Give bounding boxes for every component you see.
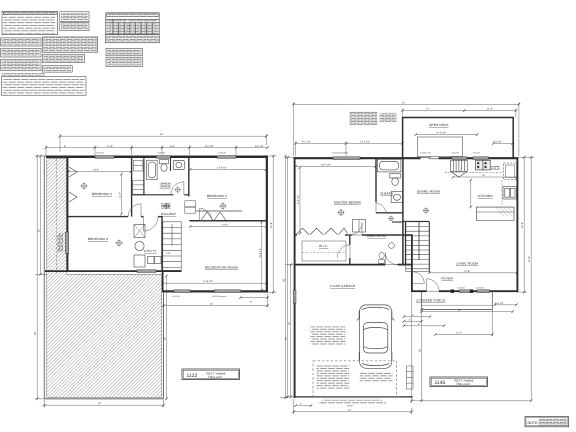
- dim 14ft-2 below bedroom2: [189, 225, 268, 228]
- svg-text:24': 24': [38, 228, 41, 232]
- mudroom light: [388, 216, 394, 222]
- ceiling light bedroom4: [116, 240, 123, 247]
- svg-text:17'-3": 17'-3": [107, 145, 113, 148]
- m.bath bottom wall: [376, 212, 403, 214]
- svg-text:6'x3'6 SH egress: 6'x3'6 SH egress: [212, 295, 226, 298]
- dim 17ft-6 living: [428, 272, 518, 275]
- note block C: headers note: [60, 23, 89, 31]
- mud room lockers: [353, 220, 366, 233]
- dim right 27ft-6 left plan: [268, 155, 276, 294]
- right plan left exterior wall: [294, 157, 296, 398]
- dim hatch height vertical: [165, 275, 168, 401]
- m.bath left wall: [375, 157, 377, 202]
- stairs main level: [406, 222, 430, 272]
- utility furnace: [134, 225, 145, 238]
- note block K2: lighting note: [106, 57, 142, 66]
- window W1 bedroom3 top: [95, 156, 114, 159]
- dim 13ft-2 bedroom3: [67, 170, 132, 173]
- window W7 bedroom4 bottom: [137, 270, 156, 273]
- window W5 rec room: [214, 290, 240, 293]
- garage entry door arc: [385, 252, 397, 264]
- dim 41ft top right plan: [292, 102, 520, 156]
- svg-text:11'-5": 11'-5": [456, 332, 462, 335]
- utility room right wall: [161, 217, 163, 272]
- front wall foyer/living: [412, 290, 519, 292]
- dining/master wall: [402, 157, 404, 264]
- bath fan symbol: [175, 187, 181, 193]
- svg-text:MUD ROOM: MUD ROOM: [367, 234, 386, 238]
- bath toilet lower level: [160, 159, 169, 171]
- window W11 garage left wall: [293, 290, 296, 303]
- svg-text:16'-0": 16'-0": [347, 405, 353, 408]
- stairwell top wall: [403, 220, 429, 222]
- svg-text:50': 50': [283, 278, 286, 282]
- left plan hatched unexcavated area: [47, 158, 162, 397]
- kitchen dim 13ft: [452, 176, 518, 179]
- garage door line: [312, 396, 400, 398]
- svg-text:4'x3'6 SH: 4'x3'6 SH: [96, 152, 105, 155]
- porch post 2: [470, 290, 473, 293]
- svg-text:22': 22': [458, 309, 462, 312]
- svg-text:17': 17': [426, 108, 430, 111]
- window W8 master top: [333, 157, 360, 160]
- svg-text:3'x3' SH: 3'x3' SH: [473, 152, 481, 155]
- hall closet tiny notes: [161, 203, 171, 209]
- right plan right exterior wall: [516, 157, 518, 292]
- window W2 bath top: [156, 156, 170, 159]
- dim bottom right plan porch side: [410, 293, 531, 403]
- notes above right plan: [349, 112, 377, 126]
- svg-text:16'-4 1/2": 16'-4 1/2": [321, 164, 331, 167]
- foyer closet door arc: [413, 272, 425, 284]
- dim 16ft-4 master: [294, 165, 377, 168]
- dim bottom 22ft rec room: [162, 294, 269, 308]
- dim left 44ft right plan: [285, 156, 294, 398]
- note block B: small note: [60, 12, 89, 22]
- deck inner rect: [418, 137, 463, 157]
- dim 12ft-4 deck: [415, 133, 479, 136]
- svg-text:4'x3'6 SH: 4'x3'6 SH: [476, 287, 485, 290]
- bath left wall: [143, 157, 145, 195]
- svg-text:BEDROOM 4: BEDROOM 4: [88, 237, 108, 241]
- note block G: dense specification paragraph: [42, 37, 97, 52]
- ceiling light bedroom2: [220, 203, 227, 210]
- sqft box 1145: [430, 377, 488, 387]
- window W10 kitchen top: [473, 157, 489, 160]
- kitchen range: [476, 160, 491, 170]
- interior wall bedrooms / hall: [68, 216, 163, 218]
- garage slab note: [317, 364, 350, 389]
- svg-text:8'-1 1/2": 8'-1 1/2": [302, 140, 311, 143]
- bath bottom wall: [132, 194, 188, 196]
- note block E: inspection required note: [1, 48, 41, 57]
- stairs arrow lower: [171, 224, 173, 246]
- stairwell left wall: [405, 222, 407, 265]
- rec room left wall lower: [162, 272, 164, 293]
- svg-text:1122: 1122: [187, 373, 198, 379]
- window W13 living front: [477, 290, 490, 293]
- svg-text:17'-6": 17'-6": [464, 270, 470, 273]
- dim right 50ft left plan: [280, 155, 288, 399]
- full size sedan note: [360, 373, 393, 383]
- svg-text:KITCHEN: KITCHEN: [478, 194, 493, 198]
- note block A: code information list: [2, 11, 58, 34]
- svg-text:BEDROOM 3: BEDROOM 3: [92, 192, 112, 196]
- kitchen upper cabinets dashed: [445, 171, 502, 173]
- window W9 dining top: [452, 157, 467, 160]
- linen closet lower: [133, 180, 144, 194]
- porch outline: [422, 292, 493, 309]
- dim line 42ft top of left plan: [59, 134, 268, 152]
- note block F: gutter note: [1, 59, 41, 70]
- garage dashed slab rect: [313, 361, 397, 397]
- window W6 bedroom4 left wall: [65, 232, 68, 254]
- note table: joist schedule: [106, 13, 159, 34]
- note block H: laminate note: [42, 66, 72, 73]
- dim right 52ft overall: [519, 156, 534, 402]
- bath door arc lower: [171, 182, 184, 195]
- wall bedroom2 bottom: [189, 220, 266, 222]
- mudroom closet wall: [392, 221, 403, 223]
- dim 9ft-6 master vertical: [299, 166, 302, 235]
- right plan top exterior wall: [294, 157, 519, 159]
- bedroom3 door arc: [128, 204, 141, 217]
- svg-text:UTILITY: UTILITY: [144, 249, 157, 253]
- dim 6ft porch: [403, 325, 446, 328]
- bedroom2 door arc: [200, 208, 212, 220]
- powder toilet: [379, 252, 385, 263]
- svg-text:This Level: This Level: [456, 382, 470, 386]
- bedroom4 door arc: [144, 217, 159, 232]
- wall toilet nook: [170, 157, 172, 172]
- ceiling light hallway: [163, 203, 169, 209]
- note block G2: subject to field note: [42, 54, 84, 62]
- svg-text:25': 25': [419, 348, 422, 352]
- dim 16ft-6 rec vertical: [261, 221, 264, 292]
- dim 4ft porch: [403, 320, 423, 323]
- svg-text:16'-6 1/2": 16'-6 1/2": [259, 248, 262, 258]
- garage car body: [357, 305, 395, 368]
- m.bath vanity: [391, 192, 402, 203]
- svg-text:OPEN DECK: OPEN DECK: [429, 123, 449, 127]
- garage bottom wall: [294, 396, 413, 398]
- bedroom4 bottom wall: [45, 270, 182, 272]
- svg-text:RECREATION ROOM: RECREATION ROOM: [205, 266, 238, 270]
- m.bath tub: [377, 159, 401, 172]
- dim 22ft porch: [420, 310, 514, 313]
- svg-text:1145: 1145: [435, 380, 446, 386]
- dim left outer 50ft: [35, 155, 46, 401]
- svg-text:17'-4 1/2": 17'-4 1/2": [360, 140, 370, 143]
- dim 11ft-5 porch: [434, 293, 493, 337]
- svg-text:4'x3'6 SH: 4'x3'6 SH: [157, 152, 166, 155]
- svg-text:24'-6": 24'-6": [521, 222, 524, 228]
- svg-text:4'x3'6 SH: 4'x3'6 SH: [172, 295, 181, 298]
- kitchen fridge: [504, 163, 517, 180]
- utility shelf: [134, 255, 145, 267]
- bedroom2 closet bifold doors: [201, 212, 226, 221]
- svg-text:5'-4 1/2": 5'-4 1/2": [495, 302, 504, 305]
- svg-text:MASTER BEDRM: MASTER BEDRM: [334, 201, 361, 205]
- svg-text:44'-6": 44'-6": [528, 256, 531, 262]
- svg-text:50': 50': [34, 331, 37, 335]
- svg-text:This Level: This Level: [208, 375, 222, 379]
- svg-text:22': 22': [210, 303, 214, 306]
- m.bath door arc: [376, 203, 386, 213]
- svg-text:42': 42': [160, 133, 164, 136]
- svg-text:44': 44': [285, 336, 288, 340]
- bedroom2 closet wall: [196, 210, 242, 212]
- wall bedroom3 right: [131, 157, 133, 217]
- stairwell right rail: [428, 222, 430, 272]
- wic bifold doors: [296, 228, 348, 234]
- garage side steps: [407, 366, 414, 389]
- svg-text:COVERED PORCH: COVERED PORCH: [416, 299, 445, 303]
- powder sink: [389, 243, 395, 249]
- dim 25ft porch vertical: [420, 308, 423, 402]
- svg-text:5'-8 1/2": 5'-8 1/2": [493, 141, 502, 144]
- bath tub lower level: [147, 160, 158, 179]
- hall shelf boxes: [185, 201, 196, 213]
- wall bath right / bedroom2 left: [188, 157, 190, 197]
- svg-text:HALLWAY: HALLWAY: [161, 212, 176, 216]
- dim 4ft garage left: [294, 404, 312, 407]
- kitchen pantry: [451, 161, 468, 178]
- svg-text:17'-0 1/2": 17'-0 1/2": [217, 167, 227, 170]
- svg-text:4'x3'6 SH: 4'x3'6 SH: [218, 152, 227, 155]
- dim bottom 24ft hatched area: [43, 400, 165, 408]
- dim left 24ft garage: [285, 263, 295, 398]
- left plan outer boundary: [44, 156, 267, 399]
- note block J: bottom paragraph with heading: [2, 73, 86, 95]
- dim row 2 left plan: [45, 145, 269, 155]
- svg-text:14'-2": 14'-2": [222, 224, 228, 227]
- left plan interior left wall: [67, 156, 69, 272]
- wic door arc: [337, 245, 350, 258]
- note table footer rows: [105, 35, 159, 43]
- recreation room bottom exterior wall: [163, 290, 267, 292]
- range note: [491, 166, 500, 170]
- svg-text:2-CAR GARAGE: 2-CAR GARAGE: [330, 284, 355, 288]
- svg-text:BEDROOM 2: BEDROOM 2: [207, 194, 227, 198]
- svg-text:13'-2": 13'-2": [93, 169, 99, 172]
- kitchen double sink: [503, 187, 517, 200]
- window W4 rec room: [174, 290, 190, 293]
- svg-text:24': 24': [98, 402, 102, 405]
- ceiling light master: [338, 209, 345, 216]
- dim 6ft rec window: [239, 296, 269, 299]
- svg-text:21': 21': [348, 409, 352, 412]
- porch steps line: [422, 304, 493, 306]
- svg-text:24': 24': [163, 336, 166, 340]
- footing dashed line in left strip: [56, 159, 58, 274]
- master suite bottom wall: [295, 234, 413, 236]
- svg-text:11'-6": 11'-6": [487, 108, 493, 111]
- dim right 24ft-6 living: [518, 156, 527, 294]
- dim 21ft-6 rec interior: [161, 282, 268, 285]
- svg-text:2'-6": 2'-6": [166, 252, 171, 255]
- kitchen counter hatch: [496, 208, 512, 217]
- svg-text:9'-0 1/2": 9'-0 1/2": [205, 145, 214, 148]
- bath cabinet note: [160, 182, 171, 189]
- dim row master top: [294, 141, 404, 156]
- slider door to deck: [421, 157, 439, 158]
- svg-text:11'-2": 11'-2": [119, 192, 122, 198]
- ceiling light dining: [423, 207, 429, 213]
- svg-text:9'-6 1/2": 9'-6 1/2": [297, 195, 300, 204]
- svg-text:5'-6": 5'-6": [170, 145, 175, 148]
- wic closet rod: [302, 241, 346, 261]
- porch post 1: [451, 290, 454, 293]
- dim deck row right plan: [401, 108, 517, 117]
- dim 5ft-8 deck: [492, 142, 514, 145]
- svg-text:NOTE:: NOTE:: [528, 421, 539, 425]
- dim 5ft-4 porch right: [494, 304, 518, 307]
- dim 17ft bedroom2: [189, 168, 267, 171]
- svg-text:4'x6'8 SL DR: 4'x6'8 SL DR: [420, 152, 431, 155]
- garage door labels: [322, 398, 382, 400]
- svg-text:FOYER: FOYER: [442, 277, 454, 281]
- svg-text:27'-6": 27'-6": [270, 222, 273, 228]
- dim bottom 21ft garage: [292, 399, 413, 414]
- dim 11ft-2 bedroom3 vertical: [120, 173, 123, 216]
- kitchen peninsula counter: [476, 207, 514, 220]
- note block D: framing inspection note: [1, 38, 41, 46]
- open deck outline: [403, 118, 514, 159]
- svg-text:24': 24': [288, 321, 291, 325]
- egress note rotated: [58, 233, 64, 252]
- dim left inner 24ft: [35, 155, 47, 276]
- svg-text:21'-6 1/2": 21'-6 1/2": [203, 280, 213, 283]
- NOTE box bottom right: [525, 417, 569, 427]
- svg-text:13': 13': [482, 174, 486, 177]
- garage foundation note: [310, 326, 345, 345]
- garage top wall: [295, 264, 413, 266]
- svg-text:LIVING ROOM: LIVING ROOM: [456, 262, 479, 266]
- svg-text:DINING ROOM: DINING ROOM: [417, 190, 440, 194]
- ceiling light bedroom3: [81, 183, 88, 190]
- front door arc: [427, 279, 440, 292]
- kitchen dim vertical: [470, 179, 473, 209]
- garage right wall: [411, 235, 413, 292]
- master bedroom door arc: [350, 223, 362, 235]
- bath sink lower level: [173, 160, 184, 169]
- window W3 bedroom2 top: [217, 156, 236, 159]
- linen shelves upper: [133, 161, 143, 172]
- m.bath toilet: [390, 174, 401, 186]
- svg-text:M.BATH: M.BATH: [381, 192, 393, 196]
- casement marks bedroom3 left wall: [69, 167, 77, 202]
- dim 8ft porch: [403, 315, 432, 318]
- left plan top exterior wall: [46, 156, 268, 158]
- left plan right exterior wall: [266, 156, 268, 292]
- svg-text:W.I.C.: W.I.C.: [319, 244, 328, 248]
- note block K1: truss engineering: [106, 48, 142, 56]
- svg-text:3'x3' SH: 3'x3' SH: [452, 152, 460, 155]
- stairs rail main: [418, 222, 420, 260]
- svg-text:12'-4 1/2": 12'-4 1/2": [436, 132, 446, 135]
- window W12 foyer front: [460, 290, 471, 293]
- svg-text:4'x3'6 SH EGRESS: 4'x3'6 SH EGRESS: [332, 152, 349, 155]
- svg-text:9'-0 1/2": 9'-0 1/2": [255, 145, 264, 148]
- svg-text:4'x3'6 SH: 4'x3'6 SH: [457, 287, 466, 290]
- sqft box 1122: [182, 369, 240, 380]
- wic right wall: [349, 235, 351, 265]
- stairs lower level: [163, 222, 181, 271]
- svg-text:41': 41': [402, 101, 406, 104]
- utility water heater: [135, 241, 144, 250]
